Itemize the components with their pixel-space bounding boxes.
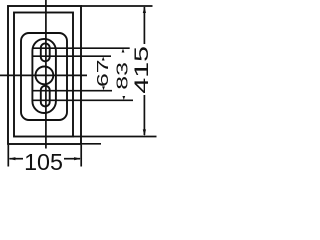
svg-text:105: 105 (24, 149, 63, 175)
83 arrowhead down (122, 96, 125, 100)
105 dimension line left segment (10, 158, 24, 160)
415 dimension line top segment (143, 7, 145, 44)
415 dimension line bottom segment (143, 95, 145, 135)
horizontal centerline (0, 74, 87, 76)
415 top extension line (81, 5, 153, 7)
leader line A (83 top) (33, 47, 130, 49)
105 arrowhead left (9, 157, 16, 160)
67 arrowhead up (102, 57, 105, 61)
105 dimension line right segment (64, 158, 80, 160)
rounded mounting plate (21, 33, 67, 120)
bottom slot hole (41, 86, 50, 107)
leader line D (83 bottom) (33, 99, 133, 101)
top slot hole (41, 43, 50, 61)
outer bottom edge extension (81, 143, 101, 145)
83 arrowhead up (122, 49, 125, 53)
middle circle hole (36, 67, 54, 85)
stadium cutout (32, 39, 56, 113)
outer plate rectangle (8, 6, 81, 144)
svg-text:83: 83 (114, 62, 131, 90)
vertical centerline (45, 0, 47, 149)
105 extension line left (7, 145, 9, 167)
415 bottom extension line (74, 136, 157, 138)
svg-text:415: 415 (132, 46, 153, 94)
leader line B (67 top) (33, 55, 111, 57)
105 extension line right (80, 145, 82, 167)
415 arrowhead up (143, 6, 146, 13)
leader line C (67 bottom) (33, 90, 112, 92)
415 arrowhead down (143, 129, 146, 136)
105 arrowhead right (74, 157, 81, 160)
67 arrowhead down (102, 86, 105, 90)
inner plate rectangle (14, 13, 73, 137)
svg-text:67: 67 (94, 59, 111, 87)
